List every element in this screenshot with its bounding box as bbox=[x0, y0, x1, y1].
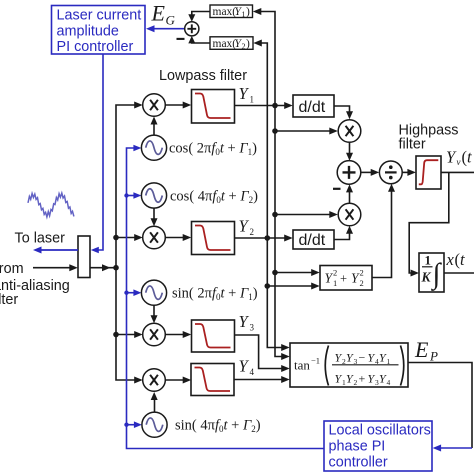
oscillator osc3 (sin 2pi f0 t) bbox=[141, 280, 166, 305]
wire: splitter to laser (blue) bbox=[33, 247, 78, 254]
text: cos(2 pi f0 t + Gamma1) bbox=[169, 141, 257, 158]
block: max(Y2) bbox=[210, 37, 253, 51]
oscillator osc4 (sin 4pi f0 t) bbox=[142, 412, 167, 437]
svg-text:1: 1 bbox=[387, 357, 391, 366]
svg-text:max(: max( bbox=[213, 6, 237, 18]
svg-text:2: 2 bbox=[360, 278, 364, 288]
wire: arctangent output E_P to local oscillator PI controller bbox=[408, 363, 472, 452]
wire: max(Y2) output to summing junction minus input bbox=[188, 36, 210, 44]
svg-text:E: E bbox=[414, 337, 429, 362]
wire: X6 to lowpass filter 4 bbox=[165, 377, 191, 384]
block: highpass filter bbox=[416, 156, 441, 189]
wire: highpass filter output Yv(t) bbox=[441, 171, 474, 173]
svg-text:): ) bbox=[246, 38, 250, 50]
svg-text:filter: filter bbox=[0, 292, 18, 308]
wire: Y1 bus to X4 left input bbox=[275, 211, 338, 218]
wire: laser modulation squiggle (noisy sine) bbox=[28, 193, 74, 217]
svg-text:2: 2 bbox=[250, 227, 255, 237]
node: junction oscillator bus to osc3 bbox=[124, 291, 128, 295]
node: junction input bus at splitter output bbox=[113, 265, 119, 271]
wire: Y1 bus to Y-squared block input 1 bbox=[275, 269, 320, 276]
wire: max(Y1) output to summing junction plus input bbox=[188, 12, 210, 22]
svg-text:d/dt: d/dt bbox=[299, 99, 326, 116]
node Yv(t) label bbox=[446, 148, 472, 168]
block: lowpass filter 1 bbox=[192, 90, 235, 124]
node: junction oscillator bus to osc4 bbox=[124, 423, 128, 427]
multiplier X1 bbox=[143, 94, 166, 117]
wire: X2 to lowpass filter 2 bbox=[165, 234, 191, 241]
wire: integrator output x(t) bbox=[444, 272, 474, 274]
block: arctangent phase detector bbox=[290, 343, 408, 387]
svg-text:tan: tan bbox=[294, 358, 310, 373]
node Y1 label bbox=[239, 84, 255, 105]
svg-text:2: 2 bbox=[333, 268, 337, 278]
svg-text:−1: −1 bbox=[311, 356, 320, 366]
oscillator osc1 (cos 2pi f0 t) bbox=[141, 135, 166, 160]
node: junction Y1 line to Y1 bus bbox=[272, 103, 278, 109]
svg-text:controller: controller bbox=[329, 455, 388, 471]
wire: osc1 to X1 bbox=[151, 117, 158, 136]
wire: Yv feedback to integrator (1/K) bbox=[409, 172, 449, 276]
svg-text:4: 4 bbox=[250, 367, 255, 377]
svg-text:(t: (t bbox=[462, 148, 473, 167]
divider circle bbox=[379, 161, 402, 184]
wire: Y2 bus to Y-squared block input 2 bbox=[267, 283, 319, 290]
svg-text:PI controller: PI controller bbox=[57, 39, 134, 55]
wire: summing junction output to PI controller (E_G) bbox=[146, 25, 185, 32]
text: cos(4 pi f0 t + Gamma2) bbox=[170, 188, 258, 205]
wire: divider to highpass filter bbox=[402, 169, 416, 176]
svg-text:From: From bbox=[0, 261, 24, 277]
svg-text:sin( 2πf0t + Γ1): sin( 2πf0t + Γ1) bbox=[172, 286, 258, 303]
wire: X1 to lowpass filter 1 bbox=[165, 102, 191, 109]
text: sin(4 pi f0 t + Gamma2) bbox=[175, 418, 261, 435]
wire: lowpass filter 1 output Y1 to d/dt 1 bbox=[235, 102, 293, 109]
wire: PI controller to splitter (blue, laser current) bbox=[91, 55, 103, 254]
node: junction input bus to X2 bbox=[113, 235, 119, 241]
node Y3 label bbox=[239, 312, 255, 333]
svg-text:Y: Y bbox=[239, 312, 250, 331]
node: junction Y2 line to Y2 bus bbox=[265, 235, 271, 241]
wire: osc4 to X6 bbox=[151, 392, 158, 412]
svg-text:1: 1 bbox=[242, 10, 246, 19]
svg-text:Y: Y bbox=[239, 217, 250, 236]
node: junction Y1 bus to X4 input bbox=[272, 212, 278, 218]
minus sign at summing junction S2 bbox=[333, 188, 341, 190]
wire: lowpass filter 4 output Y4 to tan block input 4 bbox=[234, 376, 290, 383]
wire: X5 to lowpass filter 3 bbox=[165, 331, 191, 338]
svg-text:Y: Y bbox=[239, 84, 250, 103]
oscillator osc2 (cos 4pi f0 t) bbox=[141, 183, 166, 208]
block: lowpass filter 4 bbox=[191, 364, 234, 396]
wire: d/dt 2 to X4 bottom input bbox=[334, 226, 353, 240]
svg-text:(t: (t bbox=[455, 250, 466, 269]
wire: lowpass filter 2 output Y2 to d/dt 2 bbox=[235, 235, 293, 242]
wire: X4 to summing junction S2 (minus input) bbox=[346, 184, 353, 203]
wire: input signal bus (from photodetector splitter to X1,X2,X5,X6) bbox=[116, 102, 143, 384]
node E_P label bbox=[414, 337, 438, 364]
svg-text:amplitude: amplitude bbox=[57, 24, 119, 40]
node Y2 label bbox=[239, 217, 255, 238]
wire: Y-squared block to divider bottom input bbox=[372, 184, 395, 278]
wire: summing junction S2 to divider bbox=[361, 169, 379, 176]
block: d/dt 1 bbox=[293, 95, 334, 117]
svg-text:cos( 2πf0t + Γ1): cos( 2πf0t + Γ1) bbox=[169, 141, 257, 158]
svg-text:v: v bbox=[457, 157, 461, 167]
node: junction Y2 bus to Y-squared block bbox=[265, 283, 271, 289]
text: From anti-aliasing filter (left-clipped) bbox=[0, 261, 70, 308]
wire: from anti-aliasing filter input bbox=[33, 264, 78, 271]
svg-text:Y: Y bbox=[446, 148, 457, 167]
multiplier X3 bbox=[338, 120, 361, 143]
multiplier X4 bbox=[338, 203, 361, 226]
node Y4 label bbox=[239, 357, 255, 378]
node: junction oscillator bus to osc2 bbox=[124, 193, 128, 197]
svg-text:E: E bbox=[151, 1, 166, 26]
wire: osc2 to X2 bbox=[151, 208, 158, 226]
block: Laser current amplitude PI controller bbox=[52, 6, 146, 56]
svg-text:): ) bbox=[246, 6, 250, 18]
svg-text:x: x bbox=[446, 250, 455, 269]
block: lowpass filter 2 bbox=[192, 222, 235, 255]
svg-text:4: 4 bbox=[387, 378, 391, 387]
wire: d/dt 1 to X3 bbox=[334, 106, 353, 119]
svg-text:cos( 4πf0t + Γ2): cos( 4πf0t + Γ2) bbox=[170, 188, 258, 205]
svg-text:phase PI: phase PI bbox=[329, 439, 386, 455]
wire: X3 to summing junction S2 bbox=[346, 142, 353, 160]
svg-text:To laser: To laser bbox=[15, 231, 66, 247]
svg-text:G: G bbox=[166, 13, 176, 28]
svg-text:Y: Y bbox=[239, 357, 250, 376]
node: junction Y1 bus to Y-squared block bbox=[272, 270, 278, 276]
block: d/dt 2 bbox=[293, 230, 334, 249]
node x(t) label bbox=[446, 250, 466, 269]
svg-text:P: P bbox=[429, 349, 438, 364]
summing junction S1 (gain error) bbox=[185, 22, 199, 36]
svg-text:Laser current: Laser current bbox=[57, 8, 142, 24]
wire: Y1 bus to X3 left input bbox=[275, 128, 338, 135]
svg-text:1: 1 bbox=[250, 95, 255, 105]
svg-text:Local oscillators: Local oscillators bbox=[329, 423, 431, 439]
minus sign at summing junction S1 bbox=[177, 38, 185, 40]
text: To laser bbox=[15, 231, 66, 247]
text: Highpass filter heading bbox=[399, 123, 459, 153]
wire: lowpass filter 3 output Y3 to tan block input 3 bbox=[235, 335, 290, 372]
svg-text:Lowpass filter: Lowpass filter bbox=[159, 68, 247, 84]
wire: Y1 bus (feeds max(Y1), X3, X4, Y-squared block, tan block input 2) bbox=[253, 8, 290, 360]
multiplier X5 bbox=[143, 323, 166, 346]
svg-text:1: 1 bbox=[425, 253, 432, 268]
svg-text:d/dt: d/dt bbox=[299, 232, 326, 249]
svg-text:−: − bbox=[359, 351, 366, 365]
svg-text:2: 2 bbox=[354, 378, 358, 387]
block: max(Y1) bbox=[210, 5, 253, 19]
block: Local oscillators phase PI controller bbox=[324, 421, 432, 471]
block: Y1^2 + Y2^2 bbox=[320, 266, 372, 291]
photodetector splitter block bbox=[78, 236, 90, 278]
svg-text:max(: max( bbox=[213, 38, 237, 50]
text: Lowpass filter heading bbox=[159, 68, 247, 84]
svg-text:+: + bbox=[359, 372, 366, 386]
node E_G label bbox=[151, 1, 176, 28]
svg-text:K: K bbox=[421, 270, 432, 285]
wire: splitter output to input bus bbox=[90, 264, 116, 271]
node: junction input bus to X5 bbox=[113, 332, 119, 338]
multiplier X2 bbox=[143, 226, 166, 249]
block: lowpass filter 3 bbox=[192, 320, 235, 352]
svg-text:+: + bbox=[340, 272, 347, 286]
svg-text:sin( 4πf0t + Γ2): sin( 4πf0t + Γ2) bbox=[175, 418, 261, 435]
summing junction S2 bbox=[337, 161, 361, 185]
wire: local oscillator bus (blue, from phase PI controller to oscillators) bbox=[127, 145, 325, 449]
svg-text:2: 2 bbox=[360, 268, 364, 278]
wire: Y2 bus (feeds max(Y2), Y-squared block, tan block input 1) bbox=[253, 40, 289, 352]
svg-text:3: 3 bbox=[250, 323, 255, 333]
text: sin(2 pi f0 t + Gamma1) bbox=[172, 286, 258, 303]
svg-text:1: 1 bbox=[333, 278, 337, 288]
svg-text:2: 2 bbox=[242, 42, 246, 51]
wire: osc3 to X5 bbox=[151, 305, 158, 323]
block: integrator 1/K bbox=[419, 253, 444, 293]
multiplier X6 bbox=[143, 369, 166, 392]
svg-text:filter: filter bbox=[399, 137, 426, 153]
svg-text:3: 3 bbox=[354, 357, 358, 366]
node: junction Y1 bus to X3 input bbox=[272, 128, 278, 134]
